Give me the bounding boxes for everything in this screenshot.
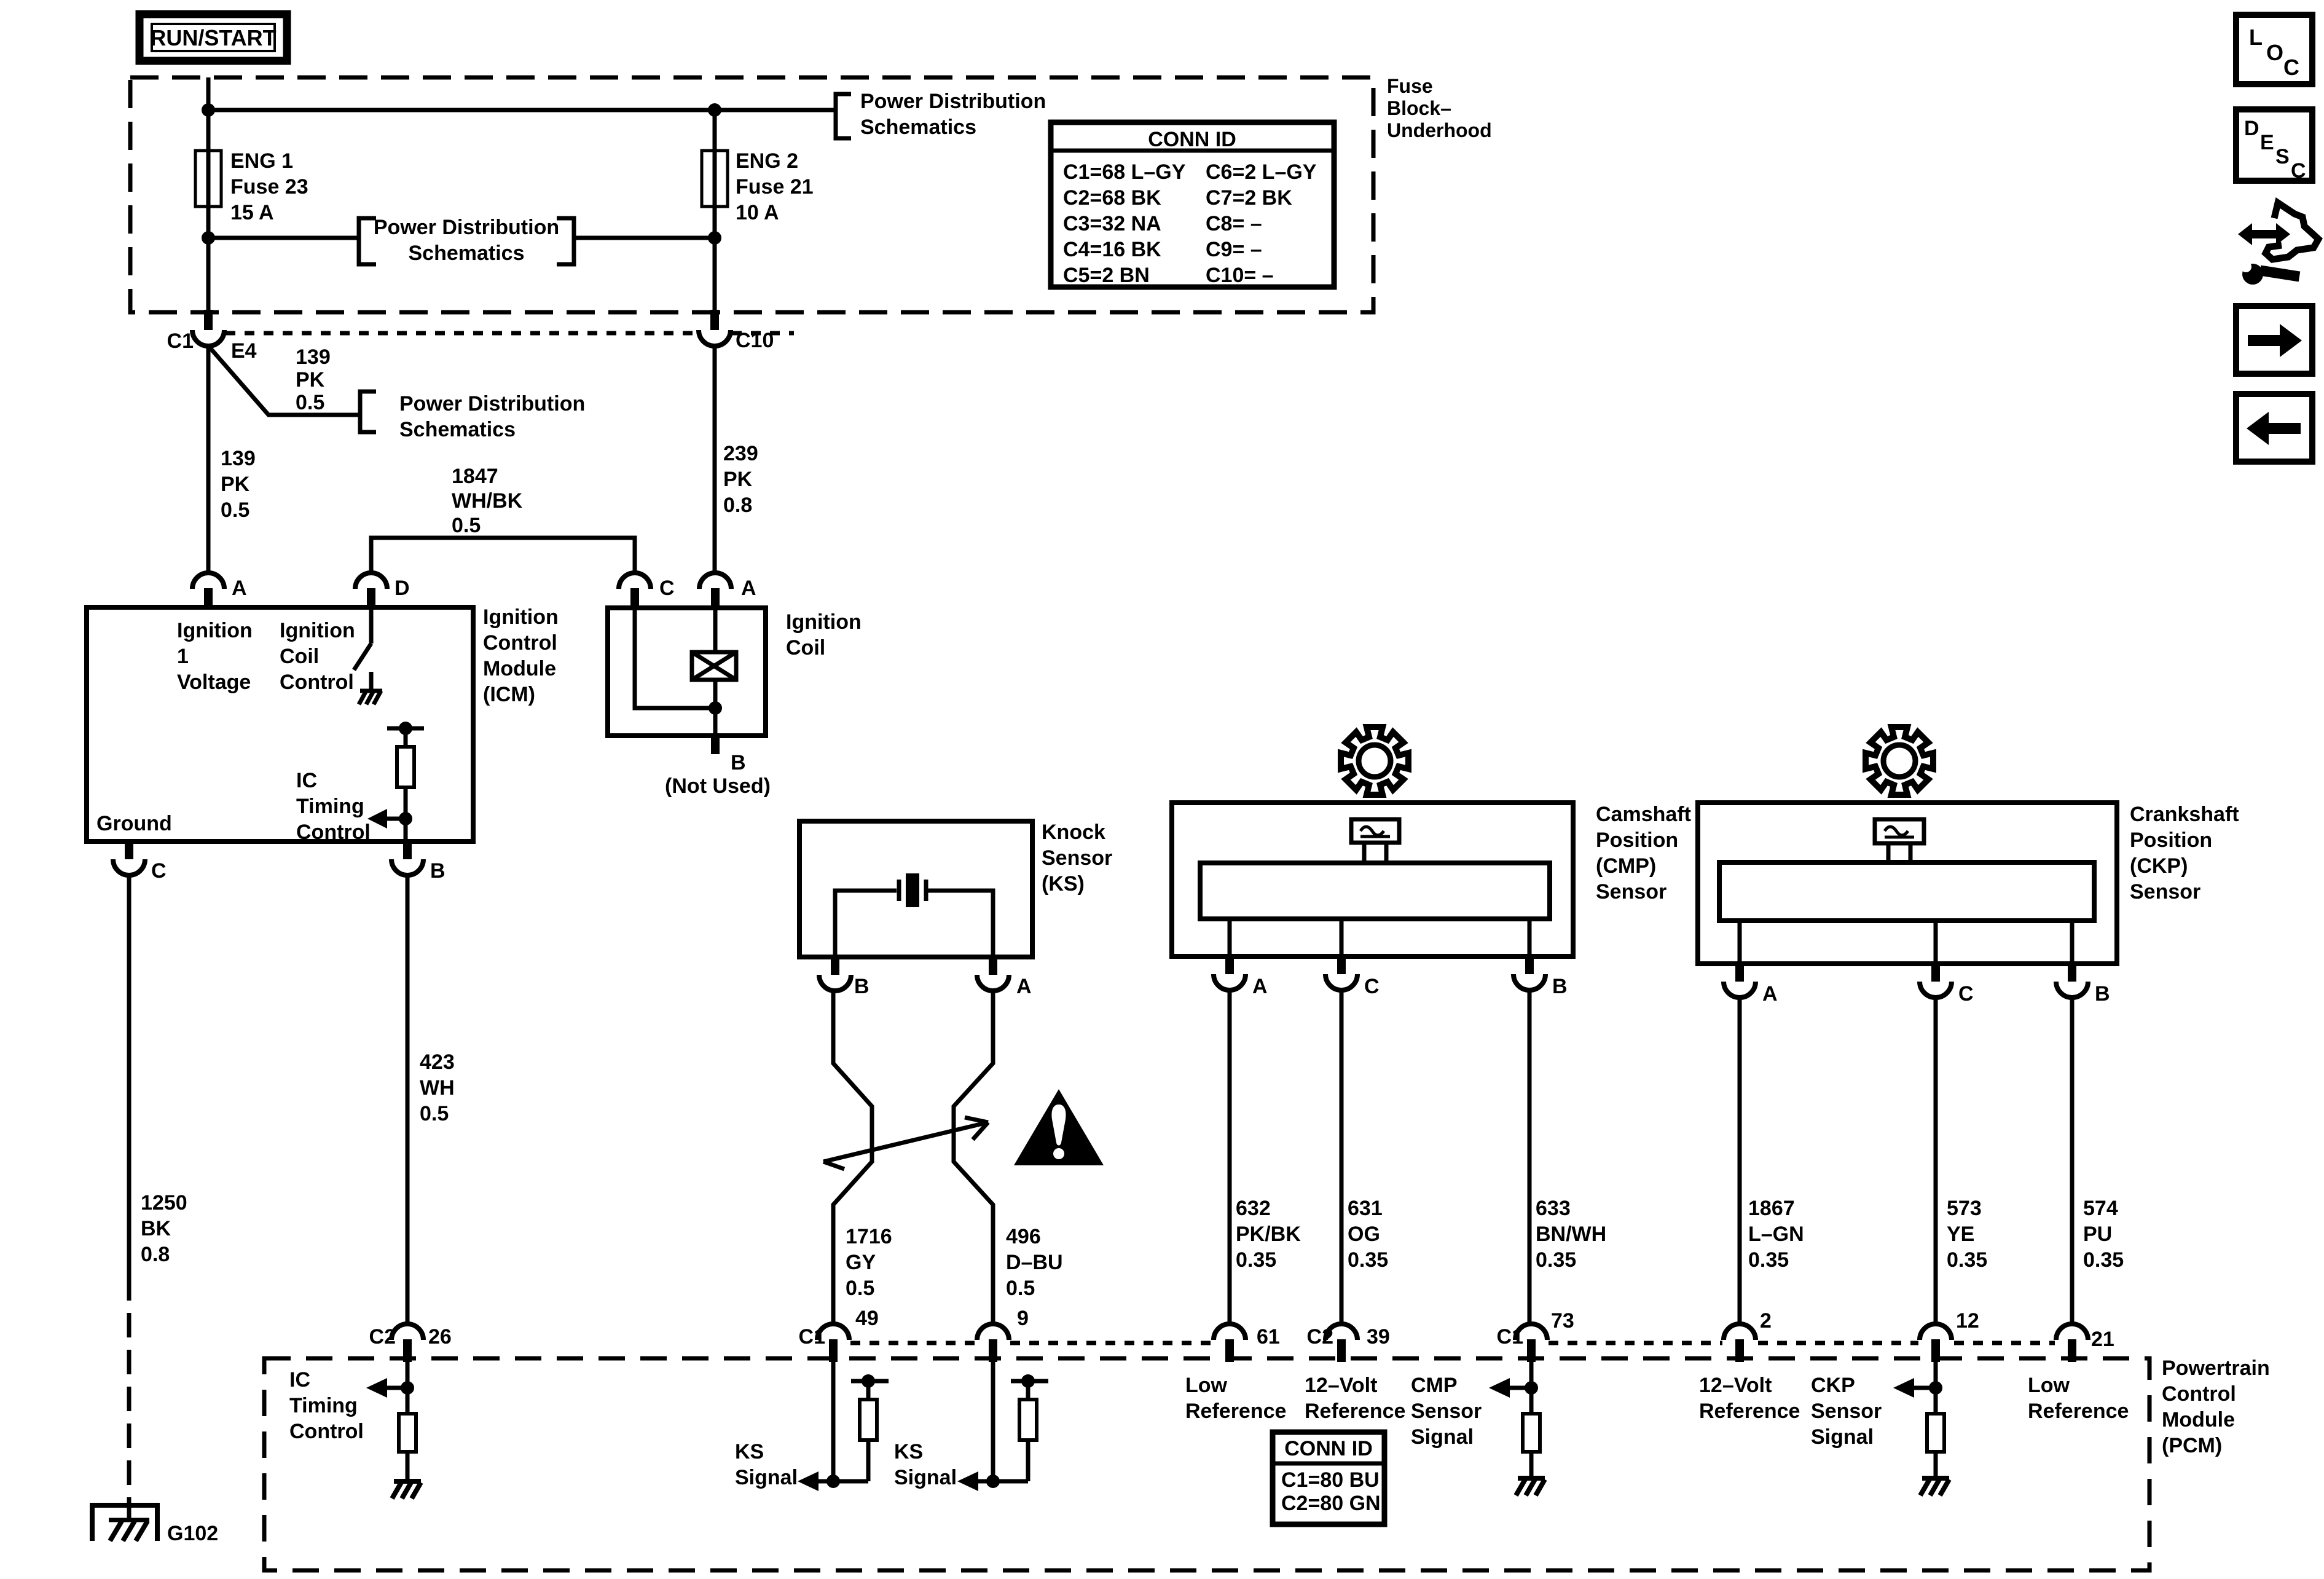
svg-text:Reference: Reference xyxy=(2028,1400,2129,1423)
svg-text:B: B xyxy=(854,975,870,998)
svg-text:C: C xyxy=(659,577,675,600)
svg-text:0.5: 0.5 xyxy=(452,514,481,537)
wire ENG1 feed vertical xyxy=(206,77,211,330)
svg-text:Control: Control xyxy=(296,821,371,844)
svg-text:BN/WH: BN/WH xyxy=(1536,1223,1606,1246)
svg-text:IC: IC xyxy=(289,1368,310,1392)
svg-text:C: C xyxy=(2283,55,2299,80)
twisted pair crossover arrow xyxy=(823,1117,988,1169)
icon DESC box xyxy=(2236,109,2312,183)
svg-text:Power Distribution: Power Distribution xyxy=(374,216,559,239)
svg-text:Signal: Signal xyxy=(894,1466,957,1489)
svg-text:(CKP): (CKP) xyxy=(2130,854,2188,878)
svg-text:1847: 1847 xyxy=(452,465,498,488)
svg-text:A: A xyxy=(232,577,247,600)
svg-text:(PCM): (PCM) xyxy=(2162,1434,2222,1457)
label IC Timing Control (ICM) xyxy=(296,769,371,844)
svg-text:C: C xyxy=(2291,159,2306,183)
svg-text:0.5: 0.5 xyxy=(420,1102,449,1125)
svg-text:C: C xyxy=(1958,982,1974,1006)
svg-text:C2=68 BK: C2=68 BK xyxy=(1063,186,1161,210)
label 633 BN/WH 0.35 xyxy=(1536,1197,1606,1272)
svg-text:Control: Control xyxy=(2162,1382,2236,1406)
svg-text:139: 139 xyxy=(221,447,256,470)
connector B (CMP) xyxy=(1513,956,1568,998)
coil primary symbol (boxed X) xyxy=(692,608,736,680)
svg-text:49: 49 xyxy=(855,1307,879,1330)
ignition coil box xyxy=(608,608,766,736)
resistor IC timing control (ICM) xyxy=(387,722,424,840)
svg-text:Low: Low xyxy=(2028,1374,2070,1397)
wire CMP internal A xyxy=(1228,919,1232,956)
svg-text:C1=80 BU: C1=80 BU xyxy=(1281,1468,1380,1492)
gear icon (CMP) xyxy=(1341,727,1408,795)
svg-text:Fuse 21: Fuse 21 xyxy=(736,175,814,199)
wire coil internal xyxy=(635,608,722,736)
wire 1250 BK dashed part to G102 xyxy=(127,1276,132,1505)
connector C1 (fuse block) xyxy=(167,310,257,363)
label Low Reference (pin 21) xyxy=(2028,1374,2129,1423)
svg-text:(CMP): (CMP) xyxy=(1596,854,1656,878)
label 1250 BK 0.8 xyxy=(141,1191,187,1266)
label 1867 L-GN 0.35 xyxy=(1748,1197,1804,1272)
svg-text:CMP: CMP xyxy=(1411,1374,1458,1397)
svg-text:Schematics: Schematics xyxy=(860,116,976,139)
svg-text:Knock: Knock xyxy=(1042,821,1105,844)
svg-text:Underhood: Underhood xyxy=(1387,119,1492,141)
connector B (KS) xyxy=(819,957,870,998)
arrow IC timing control xyxy=(367,809,406,829)
connector pin 21 (PCM) xyxy=(2056,1324,2114,1362)
node IC timing junction xyxy=(399,812,412,825)
svg-text:BK: BK xyxy=(141,1217,171,1240)
label 1716 GY 0.5 xyxy=(846,1225,892,1300)
svg-text:KS: KS xyxy=(735,1440,764,1463)
knock sensor KS box xyxy=(799,821,1032,957)
wire 1867 L-GN xyxy=(1738,998,1742,1324)
label Ignition Control Module (ICM) xyxy=(483,605,559,706)
svg-text:(KS): (KS) xyxy=(1042,872,1085,896)
svg-text:0.35: 0.35 xyxy=(1748,1248,1789,1272)
svg-text:CKP: CKP xyxy=(1811,1374,1855,1397)
svg-text:Powertrain: Powertrain xyxy=(2162,1357,2270,1380)
svg-text:(Not Used): (Not Used) xyxy=(665,774,771,798)
svg-text:G102: G102 xyxy=(167,1522,218,1545)
label 631 OG 0.35 xyxy=(1348,1197,1388,1272)
svg-text:RUN/START: RUN/START xyxy=(150,25,276,50)
svg-text:Power Distribution: Power Distribution xyxy=(399,392,585,415)
svg-text:A: A xyxy=(1762,982,1778,1006)
svg-text:Position: Position xyxy=(1596,829,1678,852)
camshaft position CMP sensor box xyxy=(1172,803,1573,956)
svg-text:Ignition: Ignition xyxy=(177,619,253,642)
svg-text:C: C xyxy=(1364,975,1380,998)
wire 574 PU xyxy=(2070,998,2075,1324)
KS signal circuit 2 (PCM) xyxy=(957,1362,1048,1491)
label 574 PU 0.35 xyxy=(2083,1197,2124,1272)
svg-text:C2=80 GN: C2=80 GN xyxy=(1281,1492,1381,1515)
label 573 YE 0.35 xyxy=(1947,1197,1987,1272)
svg-text:Position: Position xyxy=(2130,829,2212,852)
wire CMP internal C xyxy=(1340,919,1344,956)
svg-text:423: 423 xyxy=(420,1050,455,1074)
wire 423 WH from ICM B to PCM C2-26 xyxy=(406,875,410,1324)
wire 239 PK from C10 to coil A xyxy=(713,346,717,574)
svg-text:C3=32 NA: C3=32 NA xyxy=(1063,212,1161,235)
PCM connector face dotted row xyxy=(850,1341,2055,1345)
svg-text:OG: OG xyxy=(1348,1223,1380,1246)
connector A (CKP) xyxy=(1724,964,1778,1006)
svg-text:A: A xyxy=(1016,975,1032,998)
label 12-Volt Reference (pin 2) xyxy=(1699,1374,1800,1423)
connector C2 pin 26 (PCM) xyxy=(369,1324,452,1362)
svg-text:B: B xyxy=(1552,975,1568,998)
fuse ENG2 Fuse 21 10A xyxy=(702,149,814,224)
svg-text:Voltage: Voltage xyxy=(177,671,251,694)
CKP inner element box xyxy=(1719,862,2094,921)
svg-text:Schematics: Schematics xyxy=(409,242,525,265)
connector C (CKP) xyxy=(1920,964,1974,1006)
svg-text:Ground: Ground xyxy=(96,812,172,835)
svg-text:Module: Module xyxy=(483,657,556,680)
svg-text:GY: GY xyxy=(846,1251,876,1274)
piezo element (KS internal) xyxy=(835,873,993,955)
svg-text:9: 9 xyxy=(1017,1307,1029,1330)
svg-text:Camshaft: Camshaft xyxy=(1596,803,1691,826)
label Camshaft Position (CMP) Sensor xyxy=(1596,803,1691,904)
svg-text:633: 633 xyxy=(1536,1197,1571,1220)
svg-text:IC: IC xyxy=(296,769,317,792)
svg-text:PK/BK: PK/BK xyxy=(1236,1223,1301,1246)
svg-text:L–GN: L–GN xyxy=(1748,1223,1804,1246)
svg-text:10 A: 10 A xyxy=(736,201,779,224)
wire top bus xyxy=(208,108,715,112)
off-page bracket Power Distribution Schematics (E4 branch) xyxy=(360,392,585,441)
wire CKP internal C xyxy=(1934,921,1938,964)
wire power distribution tap right xyxy=(575,236,715,240)
svg-text:632: 632 xyxy=(1236,1197,1271,1220)
svg-text:PK: PK xyxy=(723,468,753,491)
svg-text:KS: KS xyxy=(894,1440,923,1463)
wire CMP internal B xyxy=(1528,919,1532,956)
svg-text:CONN ID: CONN ID xyxy=(1284,1437,1373,1460)
wire 1716 GY twisted pair left xyxy=(833,991,872,1324)
svg-text:Ignition: Ignition xyxy=(483,605,559,629)
connector face dotted row (fuse block) xyxy=(226,331,697,336)
svg-text:E4: E4 xyxy=(231,339,257,363)
svg-text:Schematics: Schematics xyxy=(399,418,516,441)
svg-text:CONN ID: CONN ID xyxy=(1148,128,1236,151)
svg-text:C7=2 BK: C7=2 BK xyxy=(1206,186,1292,210)
connector C (below ICM) xyxy=(113,841,167,883)
svg-text:0.5: 0.5 xyxy=(1006,1277,1035,1300)
node bus right xyxy=(708,103,721,117)
label CKP Sensor Signal xyxy=(1811,1374,1882,1449)
ground (PCM CKP) xyxy=(1920,1478,1949,1495)
svg-text:Module: Module xyxy=(2162,1408,2235,1431)
connector pin 12 (PCM) xyxy=(1920,1309,1979,1362)
label 139 PK 0.5 (diagonal) xyxy=(296,345,331,414)
svg-text:Power Distribution: Power Distribution xyxy=(860,90,1046,113)
connector C2 pin 39 (PCM) xyxy=(1307,1324,1390,1362)
PCM powertrain control module dashed box xyxy=(264,1358,2149,1570)
svg-text:Low: Low xyxy=(1185,1374,1228,1397)
svg-text:A: A xyxy=(741,577,756,600)
svg-text:Control: Control xyxy=(289,1420,364,1443)
svg-text:0.5: 0.5 xyxy=(296,391,324,414)
svg-text:B: B xyxy=(2095,982,2110,1006)
svg-text:ENG 2: ENG 2 xyxy=(736,149,798,173)
svg-text:D–BU: D–BU xyxy=(1006,1251,1063,1274)
svg-text:Sensor: Sensor xyxy=(1811,1400,1882,1423)
svg-text:Control: Control xyxy=(483,631,557,655)
off-page bracket Power Distribution Schematics (top right) xyxy=(836,90,1046,139)
svg-text:Sensor: Sensor xyxy=(1042,846,1112,870)
connector C (CMP) xyxy=(1325,956,1380,998)
wire bus to top-right bracket xyxy=(715,108,834,112)
svg-text:574: 574 xyxy=(2083,1197,2118,1220)
wire 496 D-BU twisted pair right xyxy=(954,991,993,1324)
svg-text:C10= –: C10= – xyxy=(1206,264,1274,287)
svg-text:139: 139 xyxy=(296,345,331,369)
svg-text:PU: PU xyxy=(2083,1223,2112,1246)
fuse block underhood dashed box xyxy=(130,77,1373,312)
crankshaft position CKP sensor box xyxy=(1698,803,2117,964)
svg-text:Reference: Reference xyxy=(1305,1400,1405,1423)
label Ignition Coil xyxy=(786,610,862,660)
svg-text:Reference: Reference xyxy=(1699,1400,1800,1423)
svg-text:1716: 1716 xyxy=(846,1225,892,1248)
svg-text:Timing: Timing xyxy=(296,795,364,818)
label 1847 WH/BK 0.5 xyxy=(452,465,523,537)
svg-text:1867: 1867 xyxy=(1748,1197,1795,1220)
svg-text:C1=68 L–GY: C1=68 L–GY xyxy=(1063,160,1186,184)
svg-text:0.35: 0.35 xyxy=(1348,1248,1388,1272)
svg-text:D: D xyxy=(395,577,410,600)
svg-text:39: 39 xyxy=(1367,1325,1390,1349)
off-page bracket Power Distribution Schematics (inside fuse block) xyxy=(359,216,574,265)
svg-text:0.35: 0.35 xyxy=(1236,1248,1276,1272)
svg-text:Coil: Coil xyxy=(280,645,319,668)
wire 139 PK diagonal to bracket xyxy=(210,347,359,415)
svg-text:239: 239 xyxy=(723,442,758,465)
label CMP Sensor Signal xyxy=(1411,1374,1482,1449)
svg-text:21: 21 xyxy=(2091,1328,2114,1351)
svg-text:1250: 1250 xyxy=(141,1191,187,1215)
ground (PCM CMP) xyxy=(1516,1478,1545,1495)
svg-text:E: E xyxy=(2260,131,2274,154)
svg-text:12–Volt: 12–Volt xyxy=(1699,1374,1772,1397)
label 423 WH 0.5 xyxy=(420,1050,455,1125)
label 632 PK/BK 0.35 xyxy=(1236,1197,1301,1272)
CKP sensor signal circuit (PCM) xyxy=(1893,1362,1944,1478)
label Ignition 1 Voltage xyxy=(177,619,253,694)
svg-text:Control: Control xyxy=(280,671,354,694)
CMP inner element box xyxy=(1200,863,1550,919)
wire 1847 WH/BK from ICM D to coil C xyxy=(371,538,635,574)
connector B (below ICM) xyxy=(391,841,446,883)
icon forward arrow box xyxy=(2236,306,2312,374)
svg-text:L: L xyxy=(2249,25,2263,50)
connector C10 (fuse block) xyxy=(699,310,774,352)
svg-text:Signal: Signal xyxy=(1811,1425,1874,1449)
icon back arrow box xyxy=(2236,394,2312,462)
svg-text:C1: C1 xyxy=(1497,1325,1523,1349)
svg-text:C1: C1 xyxy=(799,1325,825,1349)
warning triangle xyxy=(1014,1089,1104,1165)
label Ignition Coil Control xyxy=(280,619,355,694)
wire 1250 BK ground wire (solid part) xyxy=(127,875,132,1276)
label Powertrain Control Module (PCM) xyxy=(2162,1357,2270,1457)
svg-text:C6=2 L–GY: C6=2 L–GY xyxy=(1206,160,1317,184)
connector A (CMP) xyxy=(1214,956,1268,998)
connector C (ignition coil pin C) xyxy=(619,573,675,608)
icon wrench and arrows xyxy=(2238,203,2318,285)
svg-text:O: O xyxy=(2266,40,2283,65)
svg-text:0.5: 0.5 xyxy=(221,498,249,522)
RUN/START switch label box xyxy=(139,14,287,61)
svg-text:0.35: 0.35 xyxy=(2083,1248,2124,1272)
ground (ICM internal) xyxy=(359,672,382,704)
svg-text:C10: C10 xyxy=(736,329,774,352)
label 496 D-BU 0.5 xyxy=(1006,1225,1063,1300)
wire CKP internal B xyxy=(2070,921,2075,964)
svg-text:PK: PK xyxy=(221,473,250,496)
svg-text:1: 1 xyxy=(177,645,189,668)
svg-text:B: B xyxy=(731,751,746,774)
CONN ID table (PCM) xyxy=(1273,1432,1384,1524)
svg-text:Timing: Timing xyxy=(289,1394,358,1417)
svg-text:2: 2 xyxy=(1760,1309,1772,1333)
svg-text:0.5: 0.5 xyxy=(846,1277,874,1300)
ground G102 xyxy=(92,1503,218,1545)
svg-text:Block–: Block– xyxy=(1387,97,1451,119)
wire 573 YE xyxy=(1934,998,1938,1324)
svg-text:496: 496 xyxy=(1006,1225,1041,1248)
svg-text:573: 573 xyxy=(1947,1197,1982,1220)
svg-text:Sensor: Sensor xyxy=(2130,880,2200,904)
svg-text:12: 12 xyxy=(1956,1309,1979,1333)
svg-text:C2: C2 xyxy=(369,1325,396,1349)
pickup element (CKP) xyxy=(1875,819,1924,862)
CONN ID table (fuse block) xyxy=(1051,122,1334,287)
wire power distribution tap left xyxy=(208,236,358,240)
wire 631 OG xyxy=(1340,990,1344,1324)
wire 632 PK/BK xyxy=(1228,990,1232,1324)
pickup element (CMP) xyxy=(1351,819,1399,863)
svg-text:(ICM): (ICM) xyxy=(483,683,535,706)
svg-text:Crankshaft: Crankshaft xyxy=(2130,803,2239,826)
svg-text:YE: YE xyxy=(1947,1223,1974,1246)
node bus left xyxy=(202,103,215,117)
label Low Reference (pin 61) xyxy=(1185,1374,1286,1423)
svg-text:C: C xyxy=(151,859,167,883)
node tap right xyxy=(708,231,721,245)
ground (PCM IC timing) xyxy=(392,1481,421,1498)
svg-text:15 A: 15 A xyxy=(230,201,274,224)
wire 633 BN/WH xyxy=(1528,990,1532,1324)
svg-text:Fuse: Fuse xyxy=(1387,75,1433,97)
svg-text:26: 26 xyxy=(428,1325,452,1349)
IC timing control circuit (PCM) xyxy=(366,1362,416,1481)
svg-text:C9= –: C9= – xyxy=(1206,238,1262,261)
connector B (CKP) xyxy=(2056,964,2110,1006)
label Knock Sensor (KS) xyxy=(1042,821,1112,896)
connector A (ignition coil pin A) xyxy=(699,573,756,608)
connector pin 9 (PCM) xyxy=(977,1307,1029,1362)
KS signal circuit 1 (PCM) xyxy=(798,1362,889,1491)
svg-text:WH: WH xyxy=(420,1076,455,1100)
wire ENG2 feed vertical xyxy=(713,110,717,330)
svg-text:61: 61 xyxy=(1257,1325,1280,1349)
label KS Signal 2 xyxy=(894,1440,957,1489)
svg-text:0.8: 0.8 xyxy=(723,494,752,517)
pin B (coil, not used) xyxy=(665,736,771,798)
gear icon (CKP) xyxy=(1866,727,1933,795)
connector C1 pin 73 (PCM) xyxy=(1497,1309,1574,1362)
label 239 PK 0.8 xyxy=(723,442,758,517)
svg-text:C1: C1 xyxy=(167,329,194,353)
label Fuse Block-Underhood xyxy=(1387,75,1492,141)
svg-text:Signal: Signal xyxy=(1411,1425,1474,1449)
svg-text:631: 631 xyxy=(1348,1197,1383,1220)
connector D (ICM pin D) xyxy=(355,573,410,608)
svg-text:0.35: 0.35 xyxy=(1947,1248,1987,1272)
label Crankshaft Position (CKP) Sensor xyxy=(2130,803,2239,904)
svg-text:Sensor: Sensor xyxy=(1596,880,1666,904)
connector pin 61 (PCM) xyxy=(1214,1324,1280,1362)
label 12-Volt Reference (pin 39) xyxy=(1305,1374,1405,1423)
wire 139 PK vertical to ICM A xyxy=(206,346,211,574)
connector A (ICM pin A) xyxy=(192,573,247,608)
label 139 PK 0.5 (vertical) xyxy=(221,447,256,522)
svg-text:C4=16 BK: C4=16 BK xyxy=(1063,238,1161,261)
svg-text:C2: C2 xyxy=(1307,1325,1333,1349)
svg-text:PK: PK xyxy=(296,368,325,392)
connector C1 pin 49 (PCM) xyxy=(799,1307,879,1362)
icon LOC box xyxy=(2236,15,2312,84)
switch coil control driver xyxy=(354,608,371,670)
svg-text:WH/BK: WH/BK xyxy=(452,489,523,513)
label IC Timing Control (PCM) xyxy=(289,1368,364,1443)
svg-text:Coil: Coil xyxy=(786,636,825,660)
svg-text:0.35: 0.35 xyxy=(1536,1248,1576,1272)
node tap left xyxy=(202,231,215,245)
svg-text:0.8: 0.8 xyxy=(141,1243,170,1266)
svg-text:Ignition: Ignition xyxy=(280,619,355,642)
svg-text:Fuse 23: Fuse 23 xyxy=(230,175,308,199)
svg-text:Reference: Reference xyxy=(1185,1400,1286,1423)
svg-text:Ignition: Ignition xyxy=(786,610,862,634)
connector pin 2 (PCM) xyxy=(1724,1309,1772,1362)
svg-text:C8= –: C8= – xyxy=(1206,212,1262,235)
svg-text:S: S xyxy=(2275,145,2290,168)
connector A (KS) xyxy=(977,957,1032,998)
svg-text:12–Volt: 12–Volt xyxy=(1305,1374,1377,1397)
CMP sensor signal circuit (PCM) xyxy=(1489,1362,1540,1478)
ICM ignition control module box xyxy=(87,607,473,841)
svg-text:73: 73 xyxy=(1551,1309,1574,1333)
svg-text:B: B xyxy=(430,859,446,883)
wire CKP internal A xyxy=(1738,921,1742,964)
svg-text:D: D xyxy=(2244,117,2259,140)
svg-text:C5=2 BN: C5=2 BN xyxy=(1063,264,1150,287)
label KS Signal 1 xyxy=(735,1440,798,1489)
svg-text:Sensor: Sensor xyxy=(1411,1400,1482,1423)
fuse ENG1 Fuse 23 15A xyxy=(195,149,308,224)
svg-text:ENG 1: ENG 1 xyxy=(230,149,293,173)
svg-text:A: A xyxy=(1252,975,1268,998)
